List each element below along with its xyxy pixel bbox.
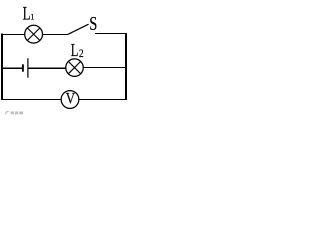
svg-text:V: V [66,90,76,107]
wire switch right contact segment [95,33,127,35]
wire middle-left segment [1,67,22,69]
label L1 [23,5,35,25]
battery cell positive long plate [27,58,29,77]
wire right bus vertical [125,33,127,100]
lamp L2 [66,59,84,77]
wire bottom-right segment [79,99,127,101]
wire top-left segment [1,34,25,36]
svg-text:S: S [89,13,97,35]
battery cell negative short plate [22,64,24,71]
wire left bus vertical [1,34,3,100]
switch S lever [68,24,89,34]
wire middle segment battery to L2 [28,67,65,69]
svg-text:L: L [71,41,79,61]
voltmeter V [61,90,79,108]
watermark [5,111,23,115]
svg-text:2: 2 [79,48,84,60]
wire top-middle segment [43,34,68,36]
lamp L1 [25,25,43,43]
wire bottom-left segment [1,99,61,101]
label L2 [71,41,84,61]
wire middle-right segment [84,67,127,69]
svg-text:1: 1 [30,11,34,21]
